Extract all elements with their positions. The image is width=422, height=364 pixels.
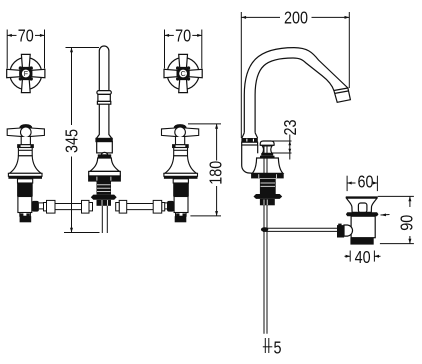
svg-text:C: C <box>181 71 186 78</box>
svg-text:40: 40 <box>355 248 371 268</box>
svg-text:200: 200 <box>284 8 308 28</box>
svg-text:60: 60 <box>357 172 373 192</box>
svg-text:180: 180 <box>206 161 226 185</box>
svg-text:70: 70 <box>175 26 191 46</box>
svg-text:23: 23 <box>281 119 301 135</box>
svg-text:5: 5 <box>273 338 281 358</box>
svg-text:345: 345 <box>62 129 82 153</box>
svg-text:F: F <box>24 71 28 78</box>
svg-text:70: 70 <box>18 26 34 46</box>
svg-text:90: 90 <box>397 215 417 231</box>
